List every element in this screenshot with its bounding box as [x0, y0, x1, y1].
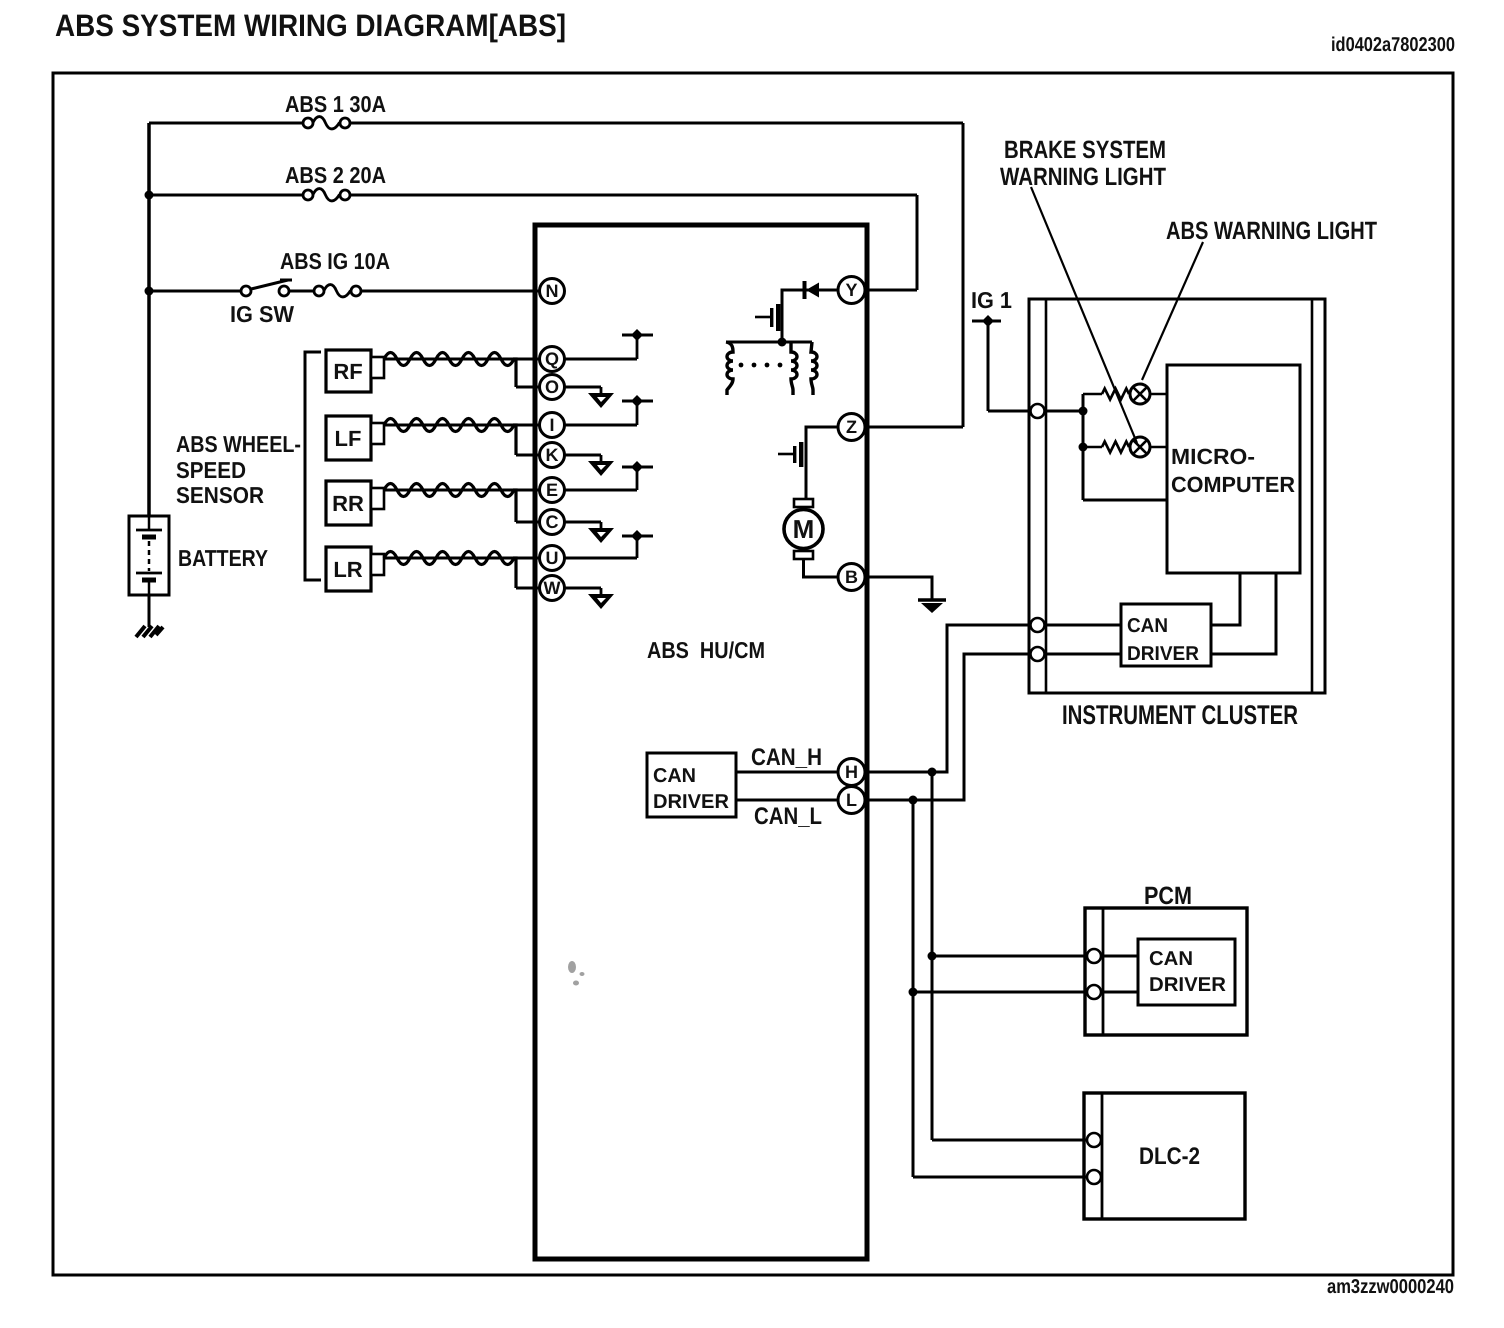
svg-text:ABS WHEEL-: ABS WHEEL-	[176, 431, 301, 457]
coil LF sensor winding and drop to K	[384, 419, 516, 456]
svg-text:I: I	[549, 415, 554, 435]
terminal H	[838, 759, 865, 786]
terminal I	[540, 413, 565, 438]
CAN DRIVER box U4 (cluster)	[1121, 604, 1211, 666]
node junction ABSIG bus	[145, 287, 154, 296]
coil solenoid secondary B	[811, 342, 817, 395]
svg-text:CAN_H: CAN_H	[751, 744, 822, 771]
svg-text:E: E	[546, 480, 558, 500]
transistor Q1 (pump FET)	[755, 304, 780, 331]
node H PCM junction	[928, 952, 937, 961]
DLC-2 box	[1084, 1093, 1245, 1219]
wire L inside to CAN driver	[736, 799, 852, 802]
svg-text:O: O	[545, 377, 559, 397]
svg-text:L: L	[846, 790, 857, 810]
svg-text:ABS SYSTEM WIRING DIAGRAM[ABS]: ABS SYSTEM WIRING DIAGRAM[ABS]	[55, 8, 566, 43]
node H branch	[928, 768, 937, 777]
wire H inside to CAN driver	[736, 771, 852, 774]
svg-text:LR: LR	[333, 557, 362, 582]
wire ABS2 left segment	[149, 194, 303, 197]
wire lamp row1 lead	[1083, 393, 1102, 396]
svg-text:Y: Y	[845, 280, 857, 300]
svg-text:ABS 1 30A: ABS 1 30A	[285, 91, 386, 117]
svg-text:CAN: CAN	[653, 765, 696, 787]
svg-text:SENSOR: SENSOR	[176, 482, 264, 508]
wire H branch vertical	[931, 772, 934, 1140]
svg-text:SPEED: SPEED	[176, 457, 246, 483]
wire H to DLC-2	[932, 1139, 1102, 1142]
wire Y to ABS2 drop	[852, 289, 917, 292]
cluster left rail	[1045, 299, 1048, 693]
ground at C row	[588, 522, 614, 543]
svg-text:ABS IG 10A: ABS IG 10A	[280, 248, 390, 274]
power tap T at E row	[622, 461, 653, 490]
coil LR sensor winding and drop to W	[384, 552, 516, 589]
cluster right rail	[1311, 299, 1314, 693]
wire ABS2 right segment	[350, 194, 917, 197]
microcomputer U3	[1167, 365, 1300, 573]
core dotted line	[739, 363, 783, 368]
power tap T at U row	[622, 530, 653, 558]
sensor bracket	[305, 352, 321, 580]
svg-text:N: N	[546, 281, 559, 301]
svg-text:COMPUTER: COMPUTER	[1171, 472, 1295, 497]
pin connector H cluster	[1031, 618, 1045, 632]
pin connector L cluster	[1031, 647, 1045, 661]
sensor RR box	[326, 481, 384, 525]
ground at B	[918, 600, 946, 613]
pin connector H DLC-2	[1087, 1133, 1101, 1147]
svg-text:H: H	[845, 762, 858, 782]
fuse ABS 1 30A	[303, 117, 350, 129]
wire lamp bracket bottom	[1083, 499, 1167, 502]
motor M1 pump	[784, 499, 823, 559]
wire Z to FET2 to motor	[806, 427, 838, 500]
wire RF straight pair lead to Q	[384, 358, 637, 361]
wire H to PCM	[932, 955, 1138, 958]
wire left bus vertical	[147, 123, 151, 517]
terminal Z	[838, 414, 865, 441]
CAN DRIVER box U2 (ABS)	[647, 753, 736, 817]
wire micro to can driver link1	[1211, 573, 1240, 625]
wire solenoid top bar	[726, 341, 812, 344]
svg-text:am3zzw0000240: am3zzw0000240	[1327, 1276, 1454, 1298]
wire Y to diode to FET1 drain	[782, 290, 838, 342]
callout line abs light	[1142, 242, 1203, 380]
wire LF straight pair lead to I	[384, 424, 637, 427]
svg-text:U: U	[546, 548, 559, 568]
wire L net to cluster	[852, 654, 1121, 800]
CAN DRIVER box U5 (PCM)	[1138, 939, 1235, 1005]
terminal W	[540, 576, 565, 601]
resistor R1 brake lamp	[1102, 389, 1129, 400]
wire H net to cluster	[852, 625, 1121, 772]
wire motor to B	[804, 559, 839, 577]
coil RF sensor winding and drop to O	[384, 353, 516, 388]
ABS HU/CM box	[535, 225, 867, 1259]
lamp brake system warning light	[1130, 437, 1167, 457]
terminal K	[540, 443, 565, 468]
wire battery to ground	[148, 595, 151, 627]
node junction ABS2 bus	[145, 191, 154, 200]
wire C lead	[516, 521, 601, 524]
svg-text:PCM: PCM	[1144, 882, 1192, 910]
terminal N	[540, 279, 565, 304]
coil RR sensor winding and drop to C	[384, 484, 516, 523]
lamp ABS warning light	[1130, 384, 1167, 404]
svg-text:BATTERY: BATTERY	[178, 545, 268, 571]
wire W lead	[516, 587, 601, 590]
wire micro to can driver link2	[1211, 573, 1276, 654]
ground at O row	[588, 387, 614, 408]
svg-text:B: B	[845, 567, 858, 587]
terminal U	[540, 546, 565, 571]
wire LR straight pair lead to U	[384, 557, 637, 560]
terminal C	[540, 510, 565, 535]
terminal L	[838, 787, 865, 814]
svg-text:Z: Z	[846, 417, 857, 437]
coil solenoid primary (left)	[726, 342, 733, 395]
svg-text:DRIVER: DRIVER	[653, 791, 730, 813]
ground battery chassis	[136, 626, 163, 637]
terminal Q	[540, 347, 565, 372]
svg-text:RR: RR	[332, 491, 364, 516]
node lamp feed junction	[1079, 407, 1088, 416]
node L PCM junction	[909, 988, 918, 997]
svg-text:LF: LF	[335, 426, 362, 451]
transistor Q2 (motor FET)	[778, 442, 803, 467]
battery BATT	[129, 516, 169, 595]
terminal B	[838, 564, 865, 591]
switch IG SW	[241, 280, 292, 296]
svg-text:ABS 2 20A: ABS 2 20A	[285, 162, 386, 188]
svg-text:MICRO-: MICRO-	[1171, 444, 1255, 469]
svg-text:DLC-2: DLC-2	[1139, 1143, 1200, 1170]
fuse ABS 2 20A	[303, 189, 350, 201]
svg-text:IG 1: IG 1	[971, 287, 1012, 313]
node L branch	[909, 796, 918, 805]
svg-text:W: W	[544, 578, 561, 598]
svg-text:ABS WARNING LIGHT: ABS WARNING LIGHT	[1166, 217, 1377, 245]
sensor LR box	[326, 547, 384, 591]
PCM box	[1085, 908, 1247, 1035]
fuse ABS IG 10A	[314, 285, 361, 297]
svg-text:BRAKE SYSTEM: BRAKE SYSTEM	[1004, 136, 1166, 164]
wire ABS1 left segment	[149, 122, 303, 125]
wire lamp bracket vertical	[1082, 394, 1085, 500]
wire lamp row2 lead	[1083, 446, 1102, 449]
svg-text:WARNING LIGHT: WARNING LIGHT	[1000, 163, 1166, 191]
svg-text:CAN: CAN	[1149, 948, 1193, 970]
wire RR straight pair lead to E	[384, 489, 637, 492]
wire L to PCM	[913, 991, 1138, 994]
sensor LF box	[326, 416, 384, 460]
pin connector H PCM	[1087, 949, 1101, 963]
wire ABS1 vertical drop to Z net	[962, 123, 965, 427]
ground at W row	[588, 588, 614, 609]
ground at K row	[588, 455, 614, 476]
svg-text:INSTRUMENT CLUSTER: INSTRUMENT CLUSTER	[1062, 700, 1298, 730]
pin connector L DLC-2	[1087, 1170, 1101, 1184]
power tap IG 1	[972, 315, 1001, 411]
wire B to ground	[852, 577, 932, 600]
svg-text:K: K	[546, 445, 559, 465]
wire IG1 into cluster	[988, 410, 1083, 413]
wire ABS2 vertical drop to Y net	[916, 195, 919, 290]
callout line brake system light	[1031, 187, 1137, 443]
svg-text:RF: RF	[333, 359, 362, 384]
svg-text:CAN_L: CAN_L	[754, 803, 822, 830]
wire L branch vertical	[912, 800, 915, 1177]
wire O lead	[516, 386, 601, 389]
wire Z to ABS1 drop	[852, 426, 963, 429]
svg-text:Q: Q	[545, 349, 559, 369]
terminal Y	[838, 277, 865, 304]
svg-text:M: M	[793, 514, 815, 544]
wire K lead	[516, 454, 601, 457]
power tap T at Q row	[622, 329, 653, 359]
svg-text:id0402a7802300: id0402a7802300	[1331, 34, 1455, 56]
sensor RF box	[326, 350, 384, 392]
power tap T at I row	[622, 395, 653, 425]
resistor R2 abs lamp	[1102, 442, 1129, 453]
DLC-2 left rail	[1101, 1093, 1104, 1219]
instrument cluster box	[1029, 299, 1325, 693]
svg-text:IG SW: IG SW	[230, 301, 294, 327]
wire L to DLC-2	[913, 1176, 1102, 1179]
pin connector IG1 cluster	[1031, 404, 1045, 418]
svg-text:CAN: CAN	[1127, 615, 1168, 637]
svg-text:C: C	[546, 512, 559, 532]
wire ABS IG segments	[149, 290, 241, 293]
svg-text:DRIVER: DRIVER	[1127, 643, 1200, 665]
scan smudge	[568, 961, 585, 986]
pin connector L PCM	[1087, 985, 1101, 999]
svg-text:ABS HU/CM: ABS HU/CM	[647, 637, 765, 663]
node lamp row2 junction	[1079, 443, 1088, 452]
diode D1	[803, 281, 820, 299]
terminal O	[540, 375, 565, 400]
svg-text:DRIVER: DRIVER	[1149, 974, 1227, 996]
wire ABS1 right segment	[350, 122, 963, 125]
node solenoid top junction	[778, 338, 787, 347]
terminal E	[540, 478, 565, 503]
PCM left rail	[1102, 908, 1105, 1035]
coil solenoid secondary A	[791, 342, 797, 395]
